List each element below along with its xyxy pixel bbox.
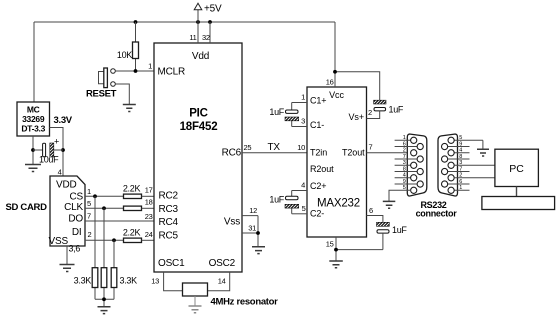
pushbutton RESET xyxy=(86,68,117,100)
svg-text:7: 7 xyxy=(87,212,91,221)
regulator MC33269 DT-3.3 xyxy=(17,102,50,136)
wire SD VSS to ground xyxy=(67,244,80,265)
DB9 left pin stubs xyxy=(395,140,418,184)
svg-text:T2in: T2in xyxy=(310,147,327,157)
svg-text:4: 4 xyxy=(58,168,62,177)
resonator X1 xyxy=(183,283,208,296)
keyboard xyxy=(482,197,555,210)
svg-text:TX: TX xyxy=(268,142,281,153)
svg-text:RC2: RC2 xyxy=(159,191,179,202)
svg-text:MC: MC xyxy=(27,105,40,115)
svg-text:14: 14 xyxy=(218,277,226,286)
DB9 right pin numbers xyxy=(459,135,462,191)
svg-text:R2out: R2out xyxy=(310,164,334,174)
node junction dots on top rail xyxy=(134,20,212,24)
op-amp U2 MAX232 box xyxy=(307,87,367,237)
svg-text:2: 2 xyxy=(88,230,92,239)
svg-text:12: 12 xyxy=(249,206,257,215)
wire C2- pin 5 xyxy=(292,204,307,214)
capacitor C4 1uF (pin6) xyxy=(377,222,408,249)
wire OSC1 pin 13 xyxy=(151,272,182,291)
svg-text:CLK: CLK xyxy=(64,202,83,213)
resistor 3.3K (col3) xyxy=(111,268,137,288)
capacitor C1 1uF xyxy=(269,103,298,127)
resistor (CLK-RC3) xyxy=(124,198,155,211)
connector J1 DB9 left body xyxy=(407,134,427,196)
wire C2+ pin 4 xyxy=(292,181,307,191)
resistor 10K xyxy=(117,22,139,71)
capacitor C2 1uF xyxy=(269,191,298,214)
svg-text:10K: 10K xyxy=(117,50,132,60)
label SD CARD xyxy=(6,202,48,213)
svg-text:1uF: 1uF xyxy=(392,225,407,235)
svg-text:6: 6 xyxy=(459,179,462,185)
label 3.3V xyxy=(54,115,73,126)
svg-text:MCLR: MCLR xyxy=(158,67,186,78)
svg-text:DO: DO xyxy=(68,214,83,225)
svg-text:2: 2 xyxy=(403,148,406,154)
svg-text:4MHz resonator: 4MHz resonator xyxy=(211,297,279,308)
resistor (col2) xyxy=(101,268,107,288)
svg-text:C2+: C2+ xyxy=(310,181,326,191)
svg-text:RC5: RC5 xyxy=(159,230,179,241)
svg-text:connector: connector xyxy=(416,209,458,219)
wire pin 15 to ground xyxy=(326,237,383,261)
ground (reset) xyxy=(123,105,136,112)
svg-text:Vs+: Vs+ xyxy=(349,112,364,122)
ground (pull-downs) xyxy=(98,307,111,314)
svg-text:5: 5 xyxy=(87,199,91,208)
svg-text:1: 1 xyxy=(148,62,152,71)
svg-text:15: 15 xyxy=(326,240,334,249)
svg-text:Vdd: Vdd xyxy=(192,51,209,62)
svg-text:3: 3 xyxy=(301,117,305,126)
svg-text:5: 5 xyxy=(459,135,462,141)
svg-text:Vss: Vss xyxy=(224,217,240,228)
svg-text:SD CARD: SD CARD xyxy=(6,202,48,213)
ground (DB9 left) xyxy=(383,201,396,208)
wire DB9 right pin5 to ground xyxy=(482,140,484,149)
capacitor 10uF xyxy=(33,137,63,165)
wire C1- pin 3 xyxy=(292,117,307,127)
svg-text:4: 4 xyxy=(403,173,406,179)
svg-text:7: 7 xyxy=(369,143,373,152)
svg-text:1: 1 xyxy=(459,185,462,191)
svg-text:2: 2 xyxy=(368,108,372,117)
svg-text:1uF: 1uF xyxy=(269,195,284,205)
svg-text:1: 1 xyxy=(87,187,91,196)
DB9 right pin stubs xyxy=(441,140,483,190)
label 4MHz resonator xyxy=(211,297,279,308)
svg-text:2.2K: 2.2K xyxy=(123,184,141,194)
svg-text:31: 31 xyxy=(248,223,256,232)
svg-text:CS: CS xyxy=(70,191,84,202)
label RS232 connector xyxy=(416,200,458,219)
ground (Vss) xyxy=(252,247,265,254)
ground (regulator) xyxy=(25,165,41,172)
svg-text:VDD: VDD xyxy=(56,180,77,191)
wire CS row xyxy=(85,187,124,198)
SD card body xyxy=(49,176,86,247)
svg-text:10: 10 xyxy=(297,143,305,152)
wire DB9 left pin5 to ground xyxy=(389,190,411,201)
svg-text:PC: PC xyxy=(509,163,524,175)
svg-text:OSC2: OSC2 xyxy=(209,258,236,269)
svg-text:33269: 33269 xyxy=(22,114,45,124)
svg-text:3.3K: 3.3K xyxy=(74,276,92,286)
wire pull-down column 1 xyxy=(94,196,96,299)
svg-text:RC4: RC4 xyxy=(159,217,179,228)
svg-text:+: + xyxy=(54,137,59,147)
svg-text:3: 3 xyxy=(403,160,406,166)
svg-text:RC3: RC3 xyxy=(159,204,179,215)
svg-text:24: 24 xyxy=(145,230,153,239)
svg-text:1: 1 xyxy=(403,135,406,141)
capacitor C3 1uF (Vcc-Vs+) xyxy=(367,100,404,118)
wire T2out pin 7 to connector xyxy=(367,143,412,153)
svg-text:17: 17 xyxy=(145,186,153,195)
svg-text:18: 18 xyxy=(145,198,153,207)
svg-text:OSC1: OSC1 xyxy=(158,258,185,269)
svg-text:1uF: 1uF xyxy=(269,107,284,117)
PC box xyxy=(495,149,539,186)
ground (MAX232 pin15) xyxy=(329,261,343,268)
wire DB9 to PC (pin 3) xyxy=(454,164,495,166)
wire +5V top rail xyxy=(34,22,335,102)
svg-text:18F452: 18F452 xyxy=(180,121,218,133)
wire DI row xyxy=(85,230,124,242)
svg-text:1uF: 1uF xyxy=(389,105,404,115)
svg-text:C1+: C1+ xyxy=(310,95,326,105)
wire DO row (to RC4) xyxy=(85,212,154,221)
svg-text:8: 8 xyxy=(459,154,462,160)
svg-text:8: 8 xyxy=(403,166,406,172)
power +5V symbol xyxy=(194,3,222,22)
pin 4 label (SD VDD) xyxy=(58,168,62,177)
svg-text:16: 16 xyxy=(326,78,334,87)
svg-text:+5V: +5V xyxy=(204,4,222,15)
DB9 left holes xyxy=(411,137,424,193)
ground (SD VSS) xyxy=(60,265,75,272)
svg-text:6: 6 xyxy=(403,141,406,147)
svg-text:3.3K: 3.3K xyxy=(120,276,138,286)
wire OSC2 pin 14 xyxy=(208,272,230,291)
wire pull-down column 3 xyxy=(113,240,115,299)
wire C1+ pin 1 xyxy=(292,93,307,103)
svg-text:7: 7 xyxy=(403,154,406,160)
wire CLK row xyxy=(85,199,124,210)
resistor 2.2K (CS-RC2) xyxy=(123,184,154,199)
resistor 2.2K (DI-RC5) xyxy=(123,227,154,242)
svg-text:2.2K: 2.2K xyxy=(123,227,141,237)
connector J2 DB9 right body xyxy=(438,134,458,196)
wire PC to keyboard xyxy=(516,187,518,197)
svg-text:1: 1 xyxy=(301,93,305,102)
DB9 left pin numbers xyxy=(403,135,406,191)
svg-text:RESET: RESET xyxy=(86,89,117,100)
svg-text:7: 7 xyxy=(459,166,462,172)
wire resonator to ground xyxy=(194,296,196,306)
wire pin 6 xyxy=(367,206,383,222)
wire button to ground xyxy=(115,84,129,104)
svg-text:11: 11 xyxy=(189,33,196,42)
wire button to MCLR xyxy=(115,69,154,73)
svg-text:5: 5 xyxy=(302,204,306,213)
wire regulator ground xyxy=(31,136,35,164)
svg-text:VSS: VSS xyxy=(49,236,69,247)
ground (resonator, gray) xyxy=(189,306,202,313)
DB9 right holes xyxy=(442,137,455,193)
svg-text:DI: DI xyxy=(72,227,82,238)
ground (DB9 right) xyxy=(477,149,489,156)
wire Vdd pin 32 xyxy=(202,22,210,43)
svg-text:9: 9 xyxy=(403,179,406,185)
svg-text:PIC: PIC xyxy=(189,108,208,120)
wire 3.3V output xyxy=(50,128,65,177)
op-amp U1 PIC18F452 box xyxy=(154,43,242,272)
svg-text:25: 25 xyxy=(244,143,252,152)
svg-text:C2-: C2- xyxy=(310,208,324,218)
resistor 3.3K (col1) xyxy=(74,268,98,288)
svg-text:3.3V: 3.3V xyxy=(54,115,73,126)
wire Vcc pin 16 xyxy=(326,22,380,100)
svg-text:6: 6 xyxy=(369,206,373,215)
svg-text:DT-3.3: DT-3.3 xyxy=(21,124,45,134)
svg-text:13: 13 xyxy=(151,277,159,286)
wire TX (RC6 to T2in) xyxy=(242,142,307,153)
svg-text:4: 4 xyxy=(459,148,462,154)
wire Vdd pin 11 xyxy=(189,22,198,43)
svg-text:T2out: T2out xyxy=(342,147,365,157)
svg-text:9: 9 xyxy=(459,141,462,147)
wire pull-down column 2 xyxy=(103,208,105,299)
svg-text:23: 23 xyxy=(145,212,153,221)
svg-text:3,6: 3,6 xyxy=(69,244,81,254)
svg-text:RC6: RC6 xyxy=(222,148,242,159)
svg-text:Vcc: Vcc xyxy=(329,90,344,100)
wire join pull-downs xyxy=(95,297,114,306)
pin 2 label Vs+ xyxy=(368,108,372,117)
svg-text:4: 4 xyxy=(301,181,305,190)
pin 1 label MCLR xyxy=(148,62,152,71)
svg-text:C1-: C1- xyxy=(310,120,324,130)
svg-text:32: 32 xyxy=(202,33,210,42)
wire DB9 to PC (pin 2) xyxy=(454,177,495,179)
svg-text:10uF: 10uF xyxy=(39,155,59,165)
wire Vss pins 12,31 xyxy=(242,206,260,247)
